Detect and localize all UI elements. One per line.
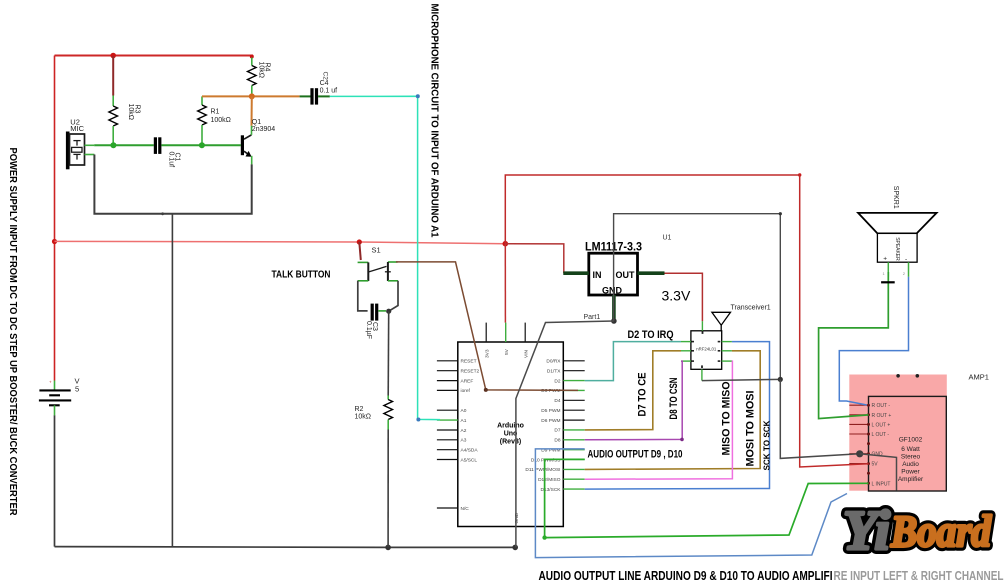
wire red riser to amp 5V bbox=[505, 175, 868, 467]
node gnd rail corner bbox=[779, 212, 782, 215]
svg-text:-: - bbox=[905, 256, 907, 263]
node battery junction bbox=[52, 239, 57, 244]
wire top red bus bbox=[55, 55, 254, 57]
svg-text:5V: 5V bbox=[872, 462, 879, 468]
svg-text:MOSI TO MOSI: MOSI TO MOSI bbox=[745, 391, 757, 467]
svg-text:S1: S1 bbox=[372, 246, 381, 255]
svg-text:IN: IN bbox=[593, 270, 602, 280]
wire red OUT 3.3V to transceiver bbox=[665, 273, 703, 321]
wire dark red bus to S1 bbox=[359, 242, 361, 260]
wire battery negative drop bbox=[54, 415, 56, 546]
node mic-R3 junction bbox=[110, 142, 116, 148]
svg-text:0.1µF: 0.1µF bbox=[365, 321, 372, 339]
speaker SPKR1 bbox=[858, 186, 937, 277]
node amp GND bbox=[856, 450, 863, 457]
svg-text:D7 TO CE: D7 TO CE bbox=[637, 373, 649, 417]
wire blue D9 audio to amp R input bbox=[535, 449, 847, 558]
node C3-R2 junction bbox=[386, 309, 391, 314]
YoBoard watermark bbox=[843, 500, 992, 562]
svg-text:2n3904: 2n3904 bbox=[252, 126, 275, 133]
pin GND stub bottom bbox=[701, 369, 703, 380]
node R4 top on bus bbox=[250, 55, 254, 59]
svg-text:+: + bbox=[883, 256, 887, 263]
node cyan at A1 bbox=[416, 418, 420, 422]
svg-text:(Rev3): (Rev3) bbox=[500, 439, 521, 446]
wire junction to R2 bbox=[387, 311, 390, 395]
svg-text:C2: C2 bbox=[321, 72, 328, 81]
svg-text:MIC: MIC bbox=[70, 124, 84, 133]
svg-text:R OUT -: R OUT - bbox=[872, 403, 891, 409]
wire magenta D8 to CSN bbox=[585, 361, 683, 440]
svg-text:GND: GND bbox=[602, 286, 623, 296]
svg-text:D2: D2 bbox=[554, 378, 560, 384]
node magenta bend bbox=[680, 438, 684, 442]
IC Arduino Uno (Rev3) bbox=[458, 342, 564, 527]
SECTION: mic circuit bbox=[39, 53, 440, 422]
resistor R4 10k bbox=[248, 58, 257, 97]
wire cyan C4 to A1 bbox=[330, 96, 440, 419]
SECTION: power rails bbox=[52, 56, 869, 551]
wire gnd riser over box to transceiver gnd rail bbox=[614, 214, 781, 380]
pin 5V bbox=[505, 323, 507, 342]
svg-text:D3 PWM: D3 PWM bbox=[541, 388, 560, 394]
node ground R2 bbox=[385, 545, 391, 551]
svg-text:ioref: ioref bbox=[461, 388, 471, 394]
amp body moved early for z-order bbox=[849, 373, 989, 492]
wire green C1 to base bbox=[161, 144, 240, 146]
svg-text:VIN: VIN bbox=[524, 349, 530, 358]
wire mic ground vertical bbox=[171, 214, 173, 547]
svg-text:AMP1: AMP1 bbox=[969, 373, 989, 382]
pin VCC stub top bbox=[701, 321, 703, 331]
resistor R3 10k bbox=[109, 96, 118, 146]
left pins bbox=[437, 361, 458, 508]
wire dark red to R3 bbox=[112, 56, 114, 96]
svg-text:Board: Board bbox=[890, 507, 992, 556]
svg-text:Amplifier: Amplifier bbox=[898, 476, 924, 483]
pin stubs right bbox=[722, 342, 732, 362]
svg-text:10kΩ: 10kΩ bbox=[355, 414, 372, 421]
wire S1 left leg down to C3 bbox=[358, 281, 368, 311]
wire green speaker+ to R OUT+ bbox=[819, 272, 889, 419]
wire main light-red 5V bus bbox=[55, 241, 506, 243]
svg-text:MISO TO MISO: MISO TO MISO bbox=[721, 381, 733, 455]
svg-text:U1: U1 bbox=[663, 235, 672, 242]
pin OUT lead bbox=[638, 271, 665, 275]
svg-text:A2: A2 bbox=[461, 428, 467, 434]
capacitor C1 0.1uf bbox=[154, 137, 181, 167]
wire brown S1 to ioref/D3 bbox=[396, 262, 578, 391]
wire gnd to arduino GND bbox=[516, 321, 614, 547]
pin marks inside body bbox=[691, 331, 720, 368]
capacitor C4 0.1uf bbox=[300, 72, 338, 105]
transistor Q1 2n3904 bbox=[241, 119, 275, 165]
svg-text:0.1uf: 0.1uf bbox=[168, 152, 175, 168]
wire green D10 audio to amp L input bbox=[545, 459, 869, 537]
svg-text:D1/TX: D1/TX bbox=[547, 369, 561, 375]
svg-text:GND: GND bbox=[514, 512, 520, 523]
svg-text:3.3V: 3.3V bbox=[662, 288, 691, 304]
svg-text:D12/MISO: D12/MISO bbox=[538, 477, 561, 483]
svg-text:R1: R1 bbox=[211, 109, 220, 116]
node regulator ground bbox=[611, 318, 617, 324]
svg-text:SPKR1: SPKR1 bbox=[892, 186, 899, 209]
pin VIN bbox=[524, 323, 526, 342]
svg-text:+: + bbox=[49, 379, 52, 384]
svg-text:A5/SCL: A5/SCL bbox=[461, 457, 478, 463]
node red riser corner bbox=[798, 173, 801, 176]
svg-text:Yi: Yi bbox=[843, 500, 890, 562]
svg-text:A0: A0 bbox=[461, 408, 467, 414]
svg-text:RE INPUT LEFT & RIGHT CHANNEL: RE INPUT LEFT & RIGHT CHANNEL bbox=[834, 569, 1004, 583]
svg-text:D5 PWM: D5 PWM bbox=[541, 408, 560, 414]
node gnd rail junction bbox=[778, 377, 783, 382]
svg-text:D11 PWM/MOSI: D11 PWM/MOSI bbox=[525, 467, 560, 473]
wire orange collector rail bbox=[202, 95, 300, 97]
microphone U2 bbox=[66, 117, 95, 169]
wire olive MOSI to D11 bbox=[585, 351, 761, 470]
svg-text:GF1002: GF1002 bbox=[899, 437, 923, 444]
svg-text:POWER SUPPLY INPUT FROM DC TO: POWER SUPPLY INPUT FROM DC TO DC STEP UP… bbox=[7, 148, 19, 516]
svg-text:5: 5 bbox=[75, 385, 79, 394]
svg-text:D7: D7 bbox=[554, 428, 560, 434]
wire ground bus bottom bbox=[55, 546, 516, 549]
svg-text:Q1: Q1 bbox=[252, 119, 261, 126]
svg-text:N/C: N/C bbox=[461, 506, 470, 512]
regulator U1 LM1117-3.3 bbox=[589, 253, 638, 295]
svg-text:D8: D8 bbox=[554, 438, 560, 444]
node cyan bend bbox=[416, 94, 420, 98]
amplifier AMP1 GF1002 bbox=[849, 373, 989, 492]
node R3 top on bus bbox=[110, 53, 116, 59]
svg-text:100kΩ: 100kΩ bbox=[211, 117, 231, 124]
svg-text:D0/RX: D0/RX bbox=[546, 359, 561, 365]
wire teal D2 to IRQ bbox=[585, 342, 681, 381]
resistor R1 100k bbox=[198, 96, 207, 145]
right pins bbox=[563, 361, 584, 489]
wire blue speaker- to R OUT- bbox=[839, 277, 908, 405]
wire red bus to LM1117 IN bbox=[505, 244, 564, 274]
pin GND lead bbox=[612, 295, 616, 321]
svg-text:A3: A3 bbox=[461, 438, 467, 444]
amp pin leads bbox=[849, 405, 868, 483]
svg-text:nRF24L01: nRF24L01 bbox=[696, 346, 717, 351]
wire R2 to ground bus bbox=[387, 430, 389, 548]
SECTION: talk button bbox=[355, 242, 579, 547]
svg-text:10kΩ: 10kΩ bbox=[127, 104, 134, 121]
antenna bbox=[712, 312, 731, 325]
svg-text:RESET: RESET bbox=[461, 359, 477, 365]
SECTION: regulator bbox=[516, 212, 782, 547]
svg-text:D4: D4 bbox=[554, 398, 560, 404]
svg-text:6 Watt: 6 Watt bbox=[901, 446, 920, 453]
SECTION: transceiver bbox=[585, 305, 860, 490]
svg-text:R2: R2 bbox=[355, 406, 364, 413]
svg-text:D6 PWM: D6 PWM bbox=[541, 418, 560, 424]
pin 3V3 bbox=[485, 323, 487, 342]
wire blue SCK to D13 bbox=[585, 342, 770, 490]
SECTION: logo bbox=[843, 500, 992, 562]
svg-text:5V: 5V bbox=[504, 348, 510, 355]
svg-text:D8 TO CSN: D8 TO CSN bbox=[668, 377, 680, 419]
svg-text:SPEAKER: SPEAKER bbox=[894, 237, 900, 261]
wire gnd rail down to amp GND bbox=[780, 379, 859, 458]
svg-text:AUDIO OUTPUT D9 , D10: AUDIO OUTPUT D9 , D10 bbox=[588, 449, 683, 461]
svg-text:SCK TO SCK: SCK TO SCK bbox=[763, 420, 772, 470]
wire S1 right leg down to C3 bbox=[389, 281, 398, 311]
pin stubs left bbox=[681, 342, 691, 362]
svg-text:AUDIO OUTPUT LINE ARDUINO D9 &: AUDIO OUTPUT LINE ARDUINO D9 & D10 TO AU… bbox=[539, 569, 833, 583]
node orange junction bbox=[249, 93, 255, 99]
wire olive D7 to CE bbox=[585, 351, 681, 430]
svg-text:C4: C4 bbox=[320, 80, 329, 87]
svg-text:MICROPHONE CIRCUIT TO INPUT OF: MICROPHONE CIRCUIT TO INPUT OF ARDUINO A… bbox=[429, 4, 441, 238]
svg-text:OUT: OUT bbox=[616, 270, 636, 280]
SECTION: arduino bbox=[437, 323, 585, 527]
polarity tick bbox=[881, 281, 895, 283]
svg-text:D2 TO IRQ: D2 TO IRQ bbox=[628, 329, 674, 341]
svg-text:AREF: AREF bbox=[461, 378, 474, 384]
node regulator tap bbox=[503, 241, 509, 247]
wire pink MISO to D12 bbox=[585, 361, 733, 479]
svg-text:D13/SCK: D13/SCK bbox=[541, 487, 562, 493]
switch S1 bbox=[358, 246, 398, 282]
pin IN lead bbox=[563, 271, 589, 275]
battery V5 bbox=[39, 377, 80, 416]
wire gray nRF GND to rail bbox=[702, 379, 780, 380]
svg-text:TALK BUTTON: TALK BUTTON bbox=[272, 269, 331, 281]
capacitor C3 0.1uF bbox=[365, 304, 386, 339]
svg-text:Audio: Audio bbox=[902, 461, 919, 468]
svg-text:Stereo: Stereo bbox=[901, 454, 921, 461]
svg-text:Arduino: Arduino bbox=[497, 423, 524, 430]
svg-text:10kΩ: 10kΩ bbox=[257, 62, 264, 79]
svg-text:0.1 uf: 0.1 uf bbox=[320, 88, 338, 95]
node mic ground tick bbox=[161, 212, 164, 215]
wire green mic signal bbox=[94, 144, 154, 146]
svg-text:Power: Power bbox=[901, 469, 920, 476]
wire left red vertical from top bus to main bus bbox=[54, 56, 56, 242]
svg-text:A4/SDA: A4/SDA bbox=[461, 448, 479, 454]
wire mic ground loop bbox=[94, 155, 251, 214]
node ground arduino bbox=[512, 545, 518, 551]
transceiver module nRF24L01 bbox=[691, 331, 722, 370]
svg-text:3V3: 3V3 bbox=[485, 349, 491, 358]
svg-text:A1: A1 bbox=[461, 418, 467, 424]
svg-text:L OUT -: L OUT - bbox=[872, 432, 890, 438]
svg-text:R OUT +: R OUT + bbox=[872, 413, 892, 419]
node brown bend bbox=[484, 388, 488, 392]
wire red bus down to arduino 5V pin bbox=[504, 244, 506, 323]
svg-text:RESET2: RESET2 bbox=[461, 369, 480, 375]
wire amp gnd internal drop bbox=[860, 454, 897, 491]
wire orange down to collector bbox=[251, 96, 253, 125]
node R1 bottom junction bbox=[199, 142, 205, 148]
wire red battery drop bbox=[54, 242, 56, 381]
svg-text:Transceiver1: Transceiver1 bbox=[731, 305, 771, 312]
node S1 tap bbox=[357, 239, 362, 244]
node green bend bbox=[542, 535, 546, 539]
svg-text:Part1: Part1 bbox=[584, 314, 601, 321]
resistor R2 10k bbox=[384, 396, 393, 430]
SECTION: amp and speaker bbox=[535, 186, 936, 558]
svg-text:L INPUT: L INPUT bbox=[872, 481, 891, 487]
svg-text:L OUT +: L OUT + bbox=[872, 422, 891, 428]
